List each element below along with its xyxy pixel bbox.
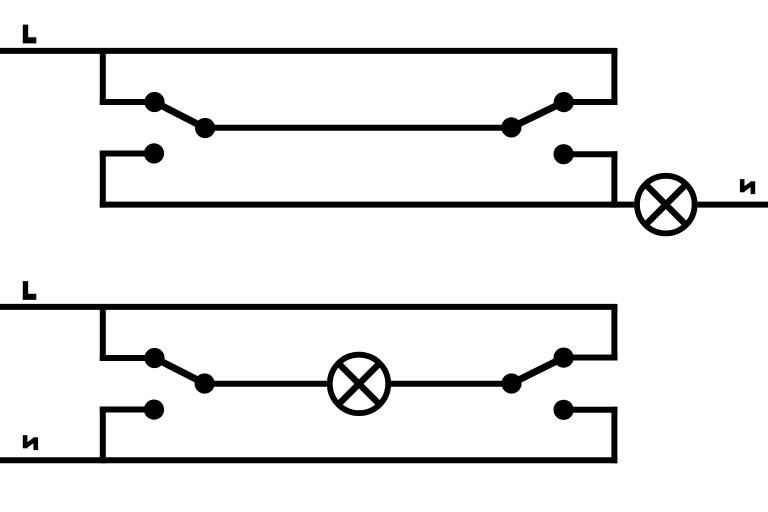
node: S3 common contact dot (bottom circuit) — [144, 348, 164, 368]
switch S2 arm (top circuit) — [511, 102, 563, 127]
wire: right post lower vertical (bottom circuit) — [611, 407, 617, 464]
switch S4 arm (bottom circuit) — [512, 358, 564, 384]
wire: lamp to S4 throw-1 (bottom circuit) — [391, 381, 512, 387]
label N (neutral terminal, bottom circuit) — [23, 435, 38, 450]
wire: left post lower vertical (top circuit) — [100, 151, 106, 208]
node: S4 throw-2 contact dot (bottom circuit) — [554, 400, 574, 420]
lamp E1 (top circuit) — [637, 176, 695, 234]
node: S1 throw-2 contact dot (top circuit) — [144, 143, 164, 163]
node: S1 throw-1 contact dot (top circuit) — [195, 118, 215, 138]
wire: stub to S1 common contact (top circuit) — [100, 99, 155, 105]
switch S3 arm (bottom circuit) — [155, 358, 205, 384]
node: S2 throw-1 contact dot (top circuit) — [501, 117, 521, 137]
wire: stub from S4 common to right post (bottom circuit) — [564, 355, 618, 361]
node: S1 common contact dot (top circuit) — [144, 92, 164, 112]
node: S4 throw-1 contact dot (bottom circuit) — [501, 373, 521, 393]
wire: neutral bottom horizontal (bottom circuit) — [0, 457, 617, 463]
node: S4 common contact dot (bottom circuit) — [554, 348, 574, 368]
switch S1 arm (top circuit) — [155, 102, 206, 128]
wire: stub from S2 common to right post (top circuit) — [564, 99, 618, 105]
wire: lamp to neutral (top circuit) — [698, 202, 768, 208]
wire: S3 throw-1 to lamp (bottom circuit) — [205, 381, 327, 387]
lamp E2 (bottom circuit) — [330, 355, 388, 413]
wire: L feed, top horizontal (bottom circuit) — [0, 304, 617, 310]
wire: L feed, top horizontal (top circuit) — [0, 48, 617, 54]
label L (line terminal, top circuit) — [23, 25, 37, 44]
wire: stub to S3 common contact (bottom circuit) — [100, 355, 155, 361]
wire: right post upper vertical (top circuit) — [611, 48, 617, 105]
wire: traveller between S1 and S2 (top circuit) — [205, 125, 511, 131]
node: S3 throw-2 contact dot (bottom circuit) — [144, 400, 164, 420]
wire: left post upper vertical (top circuit, switch S1 common branch) — [100, 48, 106, 105]
label N (neutral terminal, top circuit) — [740, 179, 755, 194]
wire: right post lower vertical (top circuit) — [611, 151, 617, 207]
wire: stub from S2 throw-2 to right post (top circuit) — [564, 151, 618, 157]
wire: right post upper vertical (bottom circuit) — [611, 304, 617, 361]
wire: bottom return to lamp (top circuit) — [100, 202, 634, 208]
node: S3 throw-1 contact dot (bottom circuit) — [195, 373, 215, 393]
wire: stub from S3 throw-2 to left post (bottom circuit) — [100, 407, 154, 413]
wire: left post lower vertical (bottom circuit) — [100, 407, 106, 464]
wire: stub from S4 throw-2 to right post (bottom circuit) — [564, 407, 618, 413]
node: S2 common contact dot (top circuit) — [554, 92, 574, 112]
wire: left post upper vertical (bottom circuit) — [100, 304, 106, 361]
wire: stub from S1 throw-2 to left post (top circuit) — [100, 151, 154, 157]
node: S2 throw-2 contact dot (top circuit) — [554, 144, 574, 164]
label L (line terminal, bottom circuit) — [23, 281, 37, 300]
